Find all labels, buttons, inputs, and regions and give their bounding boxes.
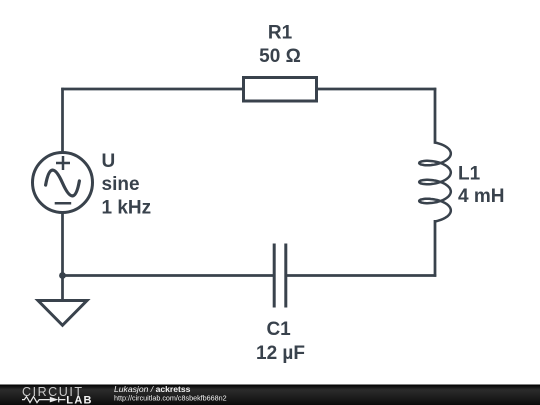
ground symbol (38, 301, 87, 326)
svg-text:LAB: LAB (66, 395, 93, 405)
wire bottom-right horizontal (286, 274, 436, 277)
voltage source plus sign (56, 156, 70, 170)
voltage source U circle (33, 153, 93, 213)
svg-text:Lukasjon / ackretss: Lukasjon / ackretss (114, 384, 191, 394)
svg-text:50 Ω: 50 Ω (259, 46, 301, 67)
wire right vertical upper (434, 88, 437, 144)
svg-text:http://circuitlab.com/c8sbekfb: http://circuitlab.com/c8sbekfb668n2 (114, 394, 227, 403)
svg-text:4 mH: 4 mH (458, 186, 504, 207)
junction node dot (59, 272, 66, 279)
resistor R1 (244, 78, 317, 102)
wire left vertical (61, 88, 64, 154)
svg-text:12 µF: 12 µF (256, 343, 305, 364)
wire right vertical lower (434, 220, 437, 277)
wire top-left horizontal (61, 88, 243, 91)
footer bar (0, 385, 540, 405)
svg-text:sine: sine (102, 174, 140, 195)
wire ground stem (61, 276, 64, 301)
svg-text:L1: L1 (458, 163, 481, 184)
svg-text:1 kHz: 1 kHz (102, 198, 152, 219)
wire source to junction (61, 212, 64, 276)
wire bottom-left horizontal (63, 274, 275, 277)
svg-text:U: U (102, 151, 116, 172)
capacitor C1 plates (274, 244, 286, 308)
svg-text:R1: R1 (268, 23, 293, 44)
logo zigzag resistor and diode (22, 397, 65, 403)
voltage source minus sign (55, 202, 71, 205)
inductor L1 coil (419, 143, 451, 222)
wire top-right horizontal (317, 88, 437, 91)
voltage source sine wave (44, 167, 81, 199)
svg-text:C1: C1 (266, 319, 291, 340)
